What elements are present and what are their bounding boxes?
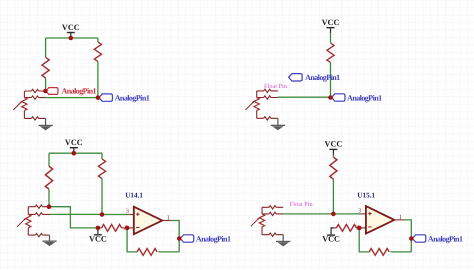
wire wiper to node B — [46, 97, 98, 99]
wire wiper to node B3 — [50, 213, 103, 215]
svg-text:AnalogPin1: AnalogPin1 — [196, 234, 231, 243]
node output c3 — [177, 236, 182, 241]
wire wiper to node — [278, 96, 331, 98]
svg-text:3: 3 — [126, 208, 129, 215]
wire output — [403, 220, 411, 252]
wire right leg — [97, 38, 99, 98]
power port VCC — [65, 138, 83, 153]
resistor R3 — [327, 43, 334, 63]
net flag AnalogPin1 (blue) — [180, 235, 194, 242]
op-amp U14.1 — [134, 207, 162, 235]
resistor R10 (feedback) — [369, 249, 389, 256]
wire output — [171, 221, 179, 252]
resistor R2 — [94, 42, 101, 62]
node feedback c3 — [125, 226, 130, 231]
wire node to op-amp pin 3 — [333, 213, 361, 215]
junction VCC c3 — [72, 151, 77, 156]
svg-text:AnalogPin1: AnalogPin1 — [115, 93, 150, 102]
ground — [45, 118, 47, 125]
ground — [277, 118, 279, 125]
svg-text:AnalogPin1: AnalogPin1 — [62, 87, 97, 96]
svg-text:3: 3 — [358, 208, 361, 215]
node c2 — [328, 95, 333, 100]
junction VCC c1 — [69, 36, 74, 41]
svg-text:1: 1 — [167, 214, 170, 221]
potentiometer RP2 — [246, 89, 278, 120]
resistor R1 — [42, 57, 49, 78]
svg-text:U14.1: U14.1 — [125, 192, 143, 200]
power port VCC — [322, 18, 340, 33]
power port VCC (below, hooked) — [331, 228, 334, 235]
pin 1 — [394, 219, 403, 221]
pin 3 — [361, 213, 366, 215]
wire top horizontal — [46, 37, 98, 39]
ground — [282, 235, 284, 241]
node c4 — [331, 212, 336, 217]
svg-text:AnalogPin1: AnalogPin1 — [305, 73, 340, 82]
node feedback c4 — [357, 226, 362, 231]
net flag AnalogPin1 (blue) — [99, 94, 113, 101]
power port VCC — [325, 140, 343, 155]
wire resistor to node — [330, 63, 332, 98]
ground — [49, 235, 51, 241]
resistor R5 — [98, 159, 105, 179]
resistor R7 (feedback) — [137, 249, 157, 256]
net flag AnalogPin1 (blue, attached) — [332, 94, 346, 101]
svg-text:AnalogPin1: AnalogPin1 — [347, 93, 382, 102]
wire node B3 to op-amp pin 3 — [102, 214, 129, 216]
resistor R4 — [45, 166, 52, 189]
wire top horizontal — [49, 152, 102, 154]
potentiometer RP3 — [17, 205, 49, 237]
wire right leg — [101, 153, 103, 214]
wire resistor to node — [332, 179, 334, 214]
resistor R9 (series into pin 2) — [334, 227, 359, 229]
svg-text:1: 1 — [399, 214, 402, 221]
resistor R6 (series into pin 2) — [98, 227, 127, 229]
net flag AnalogPin1 (red) — [46, 88, 58, 95]
power port VCC — [62, 23, 80, 38]
net flag AnalogPin1 (blue) — [412, 235, 426, 242]
node VCC tap c3 — [96, 226, 101, 231]
pin 2 — [127, 227, 134, 229]
power port VCC (below) — [89, 228, 107, 244]
node B3 — [100, 212, 105, 217]
svg-text:AnalogPin1: AnalogPin1 — [428, 234, 463, 243]
wire feedback bottom — [359, 228, 411, 252]
wire wiper to node — [283, 213, 333, 215]
wire from VCC to resistor — [330, 33, 332, 43]
op-amp U15.1 — [366, 206, 394, 234]
floating net flag AnalogPin1 (blue) — [289, 74, 303, 81]
wire left leg — [48, 153, 50, 207]
svg-text:Float Pin: Float Pin — [290, 201, 314, 208]
node A3 — [47, 204, 52, 209]
svg-text:Float Pin: Float Pin — [264, 83, 288, 90]
pin 1 — [162, 220, 171, 222]
wire node A3 bend to VCC tap — [49, 207, 98, 228]
potentiometer RP4 — [251, 206, 283, 237]
node A — [43, 89, 48, 94]
wire feedback bottom — [127, 228, 179, 252]
pin 3 — [129, 214, 134, 216]
resistor R8 — [330, 157, 337, 179]
junction dots layer — [43, 36, 414, 241]
svg-text:U15.1: U15.1 — [357, 192, 375, 200]
wire left leg — [45, 38, 47, 91]
wire from VCC to resistor — [332, 155, 334, 157]
node B — [96, 95, 101, 100]
pin 2 — [359, 227, 366, 229]
svg-text:VCC: VCC — [322, 235, 340, 244]
potentiometer RP1 — [13, 89, 45, 120]
node output c4 — [409, 236, 414, 241]
